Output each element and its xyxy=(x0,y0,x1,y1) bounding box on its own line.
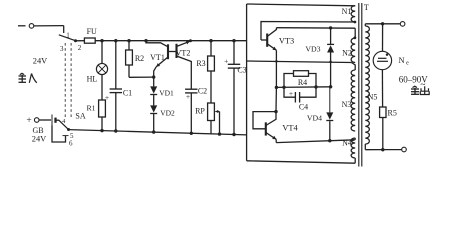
svg-text:VD3: VD3 xyxy=(305,45,320,54)
label 输入 (input) xyxy=(19,73,37,83)
wire (bottom feed) xyxy=(247,158,356,163)
svg-text:R5: R5 xyxy=(388,109,397,118)
wire xyxy=(382,24,384,52)
label HL xyxy=(87,75,98,84)
output terminal (bottom) xyxy=(402,147,407,152)
fluorescent lamp Ne xyxy=(373,51,391,69)
node (VD1 top) xyxy=(152,75,155,78)
capacitor C4 xyxy=(284,87,316,112)
node (lamp tap) xyxy=(381,22,384,25)
svg-text:R2: R2 xyxy=(135,54,144,63)
svg-text:+: + xyxy=(26,116,31,126)
node B xyxy=(314,85,317,88)
wire xyxy=(153,95,155,106)
transistor VT3 xyxy=(261,28,294,51)
svg-text:C1: C1 xyxy=(123,89,132,98)
node (rail-VT1) xyxy=(144,39,147,42)
svg-text:N2: N2 xyxy=(342,49,352,58)
node (rail-HL) xyxy=(100,39,103,42)
resistor R5 xyxy=(380,107,397,118)
wire (emitter bus) xyxy=(276,85,332,88)
wire xyxy=(210,121,212,134)
svg-text:N1: N1 xyxy=(342,7,352,16)
wire xyxy=(330,28,332,44)
wire xyxy=(114,93,117,133)
resistor R4 xyxy=(284,71,316,88)
wire xyxy=(76,40,85,42)
switch SA contact 1 xyxy=(66,31,70,39)
node (rail-R2) xyxy=(127,39,130,42)
wire xyxy=(101,41,103,64)
wire xyxy=(233,41,235,65)
svg-text:N3: N3 xyxy=(342,100,352,109)
node (VD3 top) xyxy=(329,26,332,29)
node (rail-C3) xyxy=(232,39,235,42)
svg-text:VD2: VD2 xyxy=(160,109,175,118)
svg-text:+: + xyxy=(186,92,190,101)
label 24V (input) xyxy=(33,57,47,66)
label GB xyxy=(32,126,43,135)
wire xyxy=(232,68,235,136)
wire (output top) xyxy=(365,24,400,26)
svg-text:C4: C4 xyxy=(299,103,308,112)
svg-text:VT1: VT1 xyxy=(150,53,165,62)
wire xyxy=(210,71,212,103)
svg-text:N: N xyxy=(398,56,404,65)
svg-text:2: 2 xyxy=(78,44,82,52)
potentiometer RP xyxy=(195,103,221,136)
svg-text:VD4: VD4 xyxy=(307,114,322,123)
resistor R2 xyxy=(126,50,145,65)
label 24V (battery) xyxy=(32,135,46,144)
wire xyxy=(153,77,155,86)
svg-text:e: e xyxy=(406,61,409,67)
svg-text:+: + xyxy=(224,57,228,66)
battery terminal (+) xyxy=(26,116,51,126)
label 60-90V xyxy=(399,75,429,91)
switch SA blade (bottom) xyxy=(59,120,70,131)
transformer T core xyxy=(359,3,369,167)
resistor R3 xyxy=(196,56,214,71)
wire xyxy=(152,114,155,134)
wire (node A to VT4 collector) xyxy=(274,87,277,113)
winding N3 xyxy=(342,70,356,131)
svg-text:R1: R1 xyxy=(86,104,95,113)
wire (negative rail) xyxy=(69,130,247,135)
wire (VT3 collector to N2) xyxy=(276,28,356,39)
switch SA blade (top) xyxy=(59,35,77,43)
switch SA contact 2 xyxy=(78,44,82,52)
svg-text:N4: N4 xyxy=(342,139,352,148)
winding N1 xyxy=(342,6,356,22)
dashed switch link xyxy=(64,43,66,118)
wire (VT3 emitter down) xyxy=(275,50,278,89)
switch SA contact 5 xyxy=(70,132,74,140)
resistor R1 xyxy=(86,100,105,117)
svg-text:24V: 24V xyxy=(33,57,47,66)
svg-text:VT3: VT3 xyxy=(279,37,294,46)
switch SA contact 4 xyxy=(62,118,66,125)
diode VD3 xyxy=(305,44,334,53)
fuse FU xyxy=(84,27,97,43)
svg-text:+: + xyxy=(289,89,293,98)
svg-text:24V: 24V xyxy=(32,135,46,144)
svg-text:6: 6 xyxy=(69,139,73,147)
transistor VT4 xyxy=(266,112,299,140)
output terminal (top) xyxy=(400,22,405,27)
svg-text:3: 3 xyxy=(60,45,64,53)
dashed switch link xyxy=(70,43,72,118)
input terminal X1 (top) xyxy=(18,24,34,29)
diode VD4 xyxy=(307,87,333,141)
winding N4 xyxy=(342,138,355,158)
node (rail-C1) xyxy=(114,39,117,42)
wire xyxy=(100,117,103,132)
wire (VT4 base loop) xyxy=(253,112,276,129)
lamp HL xyxy=(96,63,107,74)
wire xyxy=(329,53,332,87)
svg-text:VT4: VT4 xyxy=(282,124,298,133)
svg-text:C2: C2 xyxy=(198,87,207,96)
winding N2 xyxy=(342,38,355,63)
wire (top feed) xyxy=(247,4,356,6)
label 输出 (output) xyxy=(411,86,429,94)
transistor VT2 xyxy=(168,39,192,89)
label SA xyxy=(75,112,85,121)
wire xyxy=(129,65,154,77)
wire (output bottom) xyxy=(365,144,401,150)
wire xyxy=(63,26,65,33)
svg-text:R4: R4 xyxy=(298,78,307,87)
wire (spine) xyxy=(246,4,248,161)
node A xyxy=(282,86,285,89)
svg-text:FU: FU xyxy=(87,27,97,36)
svg-text:SA: SA xyxy=(75,112,85,121)
capacitor C3 xyxy=(224,57,246,75)
svg-text:T: T xyxy=(364,3,369,12)
battery GB xyxy=(52,115,59,126)
svg-text:C3: C3 xyxy=(237,66,246,75)
wire xyxy=(115,41,117,89)
wire (center tap feed) xyxy=(247,61,356,70)
capacitor C1 xyxy=(105,89,132,103)
wire xyxy=(190,93,193,135)
transistor VT1 xyxy=(146,41,168,77)
node (rail-R3) xyxy=(209,39,212,42)
diode VD2 xyxy=(150,105,175,117)
svg-text:HL: HL xyxy=(87,75,98,84)
wire (+ rail) xyxy=(95,40,246,42)
wire (VT4 emitter line) xyxy=(276,138,355,143)
wire xyxy=(381,70,383,107)
switch SA contact 3 xyxy=(60,45,64,53)
svg-text:RP: RP xyxy=(195,107,205,116)
svg-text:+: + xyxy=(105,93,109,102)
wire xyxy=(101,75,103,100)
wire (N1 bottom to VT3 base) xyxy=(261,21,356,40)
node (VD4 bottom) xyxy=(328,139,331,142)
wire xyxy=(128,41,130,50)
wire (battery to contact 6) xyxy=(52,126,69,143)
switch SA contact 6 xyxy=(69,139,73,147)
winding N5 (secondary) xyxy=(365,26,377,144)
svg-text:VT2: VT2 xyxy=(176,48,191,57)
wire xyxy=(34,25,64,27)
wire xyxy=(381,118,384,152)
svg-text:VD1: VD1 xyxy=(159,89,174,98)
wire xyxy=(210,41,212,56)
label Ne xyxy=(398,56,409,67)
svg-text:R3: R3 xyxy=(196,59,205,68)
svg-text:N5: N5 xyxy=(368,93,378,102)
capacitor C2 xyxy=(185,87,207,102)
diode VD1 xyxy=(150,86,174,97)
